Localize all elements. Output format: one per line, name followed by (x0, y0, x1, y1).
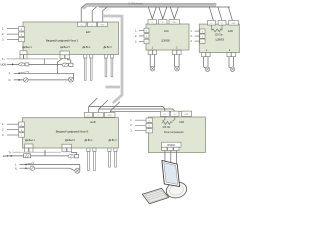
terminal P2 left A (200, 29, 205, 33)
wire: P1 pair2 down (175, 55, 180, 68)
terminal P2 bottom pair 2 (227, 53, 236, 57)
svg-text:2.: 2. (2, 33, 4, 36)
wire: U2 phase lead 3 (7, 134, 19, 136)
svg-text:2.: 2. (191, 35, 193, 38)
node: T+ label (U2 circuit) (9, 152, 12, 154)
node: junction dot (25, 167, 27, 169)
wire: U2 phase lead 2 (7, 129, 19, 131)
connector RS232 (162, 142, 182, 147)
wire: E4 to X6 (72, 152, 77, 155)
device E1: sensor oval (62, 63, 69, 66)
block U2: Вводный цифровой блок N (22, 118, 118, 148)
svg-text:Дв.Вх 1: Дв.Вх 1 (83, 47, 92, 49)
wire: P1 D- V-drop from bus (159, 7, 167, 19)
svg-text:1.: 1. (191, 30, 193, 33)
block U1: Вводный цифровой блок 1 (23, 22, 119, 55)
wire: P2 D- drop (218, 7, 222, 20)
svg-text:Вводный цифровой блок 1: Вводный цифровой блок 1 (46, 38, 79, 42)
node: U2 phase label 2 (2, 128, 4, 131)
terminal P1 left C (144, 39, 149, 43)
terminal ring P2-1 (205, 67, 210, 72)
terminal U1 input C (19, 37, 25, 41)
node: U1 phase label 3 (2, 38, 4, 41)
terminal P1 left B (144, 34, 149, 38)
terminal P2 GND (229, 21, 239, 26)
fuse F1 (oval + box) (19, 63, 29, 66)
svg-text:120 Ом: 120 Ом (215, 34, 223, 36)
node: P1 left labels (135, 29, 137, 43)
wire: trunk bus B drop to lower blocks (thick gray vertical) (104, 15, 123, 103)
terminal P1 D- (159, 20, 168, 25)
wire: RS232 to PC cable 3 (176, 151, 178, 166)
wire: U1 branch 1 (14, 72, 74, 74)
node: U1 phase label 1 (2, 28, 4, 31)
svg-text:D+: D+ (87, 115, 89, 117)
device E3: sensor oval (68, 155, 74, 158)
wire: U2 D+ stub (88, 106, 90, 112)
node: U2 phase label 3 (2, 134, 4, 137)
svg-text:Вводный цифровой блок N: Вводный цифровой блок N (56, 130, 89, 134)
svg-text:Дв.Вх 3: Дв.Вх 3 (104, 47, 113, 49)
svg-text:D+: D+ (81, 25, 83, 27)
terminal U2 GND (104, 112, 115, 117)
connector X4: U1 Дв.Вх 3 cable pair (104, 55, 113, 77)
node: junction dot branch2 (18, 79, 20, 81)
terminal U1 input B (19, 32, 25, 36)
wire: U2 shov line cont (31, 155, 69, 157)
node: junction dot (25, 164, 27, 166)
svg-text:3.: 3. (2, 134, 4, 137)
device E2: small box (69, 63, 73, 66)
terminal U1 D+ (78, 22, 87, 26)
wire: bus diagonal riser 3 (110, 102, 120, 112)
svg-text:Дв.Вх 1: Дв.Вх 1 (85, 140, 94, 142)
svg-text:3.: 3. (191, 40, 193, 43)
wire: U1 shov line cont (29, 63, 62, 65)
wire: RS-485 trunk bus A (thick gray horizontal) (83, 5, 216, 9)
terminal P2 D- (218, 21, 226, 26)
node: branch 1 label (9, 73, 11, 75)
svg-text:D+: D+ (210, 23, 212, 25)
terminal ring P1-1 (150, 66, 155, 71)
node: branch 2 label (9, 80, 12, 82)
svg-text:1.: 1. (2, 28, 4, 31)
terminal U2 input A (19, 122, 25, 126)
terminal P2 bottom pair 1 (202, 53, 211, 57)
node: ШОВ label (U1 circuit) (1, 64, 7, 66)
node: U3 left labels (130, 119, 132, 132)
terminal ring P2-2 (230, 67, 235, 72)
wire: P1 GND V-drop from bus (170, 7, 178, 19)
wire: U1 phase lead 2 (7, 33, 19, 35)
node: U2 branch 2 label (15, 168, 18, 170)
terminal P2 D+ (208, 21, 216, 26)
svg-text:2.: 2. (2, 128, 4, 131)
terminal P1 bottom pair 1 (148, 50, 157, 54)
contact K1 (NO contact arm) (20, 72, 29, 74)
node: U1 phase label 2 (2, 33, 4, 36)
wire: bus diagonal riser 1 (89, 98, 98, 106)
terminal U2 D- (93, 112, 103, 117)
wire: U2 shov line (7, 155, 24, 157)
wire: U1 branch 2 (14, 79, 69, 81)
wire: U1 phase lead 1 (7, 28, 19, 30)
terminal P2 left B (200, 34, 205, 38)
node: U2 bottom labels (25, 140, 117, 142)
connector X5: U2 Дв.Вых 1 plug (25, 144, 34, 152)
wire: gray telemetry line U2 (12, 151, 61, 153)
svg-text:1.: 1. (2, 123, 4, 126)
terminal XT2 (crossed circle) (75, 168, 80, 173)
block P1: счетчик 1 (146, 24, 189, 50)
wire: lower bus conductor 3 (110, 111, 186, 112)
svg-text:Дв.Вых 1: Дв.Вых 1 (22, 47, 32, 49)
svg-text:ЕАУ: ЕАУ (86, 31, 91, 34)
terminal U3 D+ (160, 111, 169, 116)
terminal P1 bottom pair 2 (173, 50, 182, 54)
block P2: счетчик 2 (199, 24, 239, 52)
terminal RS232 pin2 (168, 147, 173, 150)
svg-text:120 Ом: 120 Ом (162, 127, 170, 129)
contact K2 (NO contact arm) (27, 163, 34, 165)
svg-text:ЕАУ: ЕАУ (164, 30, 169, 33)
terminal U2 input B (19, 127, 25, 131)
wire: E2 to X2 (67, 59, 71, 64)
node: junction dot branch1 (18, 72, 20, 74)
svg-text:ЦЭ6850: ЦЭ6850 (216, 40, 225, 42)
resistor R2 120 Ом terminator (162, 116, 175, 124)
terminal XT1 (crossed circle) (68, 77, 73, 82)
wire: U1 D+ stub to bus (81, 4, 86, 23)
PC monitor screen (164, 163, 178, 185)
wire: RS232 to PC cable 2 (170, 151, 172, 164)
connector X2: U1 Дв.Вых 5 plug (60, 51, 70, 59)
wire: U1 D- stub to bus (92, 7, 96, 23)
terminal U3 left 3 (146, 129, 153, 133)
svg-text:N.: N. (15, 168, 18, 170)
terminal P2 left C (200, 39, 205, 43)
connector X6: U2 Дв.Вых 5 plug (62, 144, 72, 152)
svg-text:N.: N. (9, 80, 12, 82)
terminal U2 input C (19, 133, 25, 137)
node: P2 bottom labels 1 2 (206, 50, 231, 52)
wire: bus thin conductor 1 (86, 3, 217, 5)
connector X1: U1 Дв.Вых 1 plug (20, 51, 27, 59)
wire: P1 pair1 down (150, 55, 155, 68)
svg-text:1.: 1. (130, 119, 132, 122)
node: U2 branch 1 label (15, 165, 17, 167)
lamp HL1 (24, 78, 28, 82)
wire: P2 pair2 down (229, 57, 233, 68)
node: С-КН линия label (128, 1, 143, 5)
wire: riser to block (44, 150, 46, 156)
wire: P2 GND drop (228, 7, 232, 20)
wire: P2 pair1 down (204, 57, 208, 68)
node: junction dot (10, 155, 12, 157)
node: ШОВ label (U2 circuit) (3, 156, 9, 158)
wire: bus diagonal riser 2 (99, 100, 108, 109)
wire: branch1 corner down (79, 165, 81, 171)
svg-text:Дв.Вх 3: Дв.Вх 3 (109, 140, 118, 142)
svg-text:3.: 3. (2, 38, 4, 41)
node: U1 bottom labels (22, 47, 112, 49)
svg-text:1.: 1. (135, 29, 137, 32)
wire: RS232 to PC cable 1 (164, 151, 166, 163)
terminal U1 D- (88, 22, 97, 26)
svg-text:ЕАВ: ЕАВ (90, 121, 95, 124)
wire: U2 D- stub (98, 109, 100, 113)
fuse F2 (hatched box) (24, 154, 31, 158)
terminal U1 input A (19, 27, 25, 31)
wire: lower bus conductor 2 (99, 109, 175, 111)
svg-text:D+: D+ (164, 114, 166, 116)
wire: U2 phase lead 1 (7, 123, 19, 125)
svg-text:Дв.Вых 5: Дв.Вых 5 (65, 140, 75, 142)
PC monitor base (165, 180, 188, 200)
wire: P1 left leads (139, 30, 144, 41)
connector X7: U2 Дв.Вх 1 cable pair (87, 148, 96, 171)
terminal U3 left 1 (146, 118, 153, 122)
svg-text:САВ: САВ (179, 121, 184, 124)
wire: X2 left pin down (58, 59, 63, 74)
wire: U3 left leads (135, 120, 146, 130)
PC monitor panel (162, 160, 180, 186)
svg-text:ЦЭ6850: ЦЭ6850 (161, 39, 170, 42)
svg-text:ШОВ: ШОВ (1, 64, 7, 66)
connector X8: U2 Дв.Вх 3 cable pair (108, 148, 117, 167)
svg-text:ЕАВ: ЕАВ (228, 30, 233, 33)
svg-text:Дв.Вых 5: Дв.Вых 5 (60, 47, 70, 49)
wire: U1 GND stub to bus (103, 7, 107, 23)
wire: gray telemetry line U1 (7, 58, 58, 60)
svg-text:Блок сопряжения: Блок сопряжения (164, 131, 184, 134)
terminal P1 left A (144, 28, 149, 32)
svg-text:2.: 2. (130, 124, 132, 127)
lamp HL2 (30, 166, 34, 170)
wire: U2 branch 2 (20, 168, 75, 171)
node: junction dot (12, 64, 14, 66)
wire: U1 shov line (7, 63, 19, 65)
node: T+ label (U1 circuit) (2, 59, 5, 61)
wire: P1 D+ V-drop from bus (148, 7, 156, 19)
node: U2 phase label 1 (2, 123, 4, 126)
wire: P2 left leads (195, 31, 200, 41)
block U3: Блок сопряжения (148, 117, 205, 152)
wire: U1 phase lead 3 (7, 39, 19, 41)
PC keyboard (142, 188, 168, 204)
terminal P1 D+ (148, 20, 157, 25)
terminal RS232 pin3 (174, 147, 179, 150)
node: P2 left labels (191, 30, 193, 43)
wire: bus thin conductor 2 (99, 6, 230, 8)
resistor R1 120 Ом terminator (212, 25, 223, 32)
svg-text:3.: 3. (135, 40, 137, 43)
terminal ring P1-2 (175, 66, 180, 71)
svg-text:Дв.Вых 1: Дв.Вых 1 (25, 140, 35, 142)
svg-text:2.: 2. (135, 35, 137, 38)
wire: riser to block U1 (44, 59, 46, 65)
device E4: small box (74, 155, 78, 158)
connector X3: U1 Дв.Вх 1 cable pair (84, 55, 93, 81)
wire: branch1 corner down (73, 73, 75, 79)
terminal U3 D- (171, 111, 179, 116)
wire: U2 GND stub (109, 111, 111, 112)
terminal P1 GND (169, 20, 180, 25)
svg-text:3.: 3. (130, 129, 132, 132)
node: P1 bottom labels 1 2 (152, 48, 178, 50)
svg-text:RS232: RS232 (168, 144, 176, 147)
terminal RS232 pin1 (162, 147, 167, 150)
terminal U3 GND (181, 111, 191, 116)
terminal U1 GND (98, 22, 108, 26)
svg-text:D+: D+ (151, 22, 153, 24)
wire: U2 branch 1 (20, 164, 80, 166)
terminal U2 D+ (84, 112, 92, 117)
wire: lower bus conductor 1 (89, 106, 165, 111)
terminal U3 left 2 (146, 123, 153, 127)
wire: P2 D+ drop (209, 7, 213, 20)
